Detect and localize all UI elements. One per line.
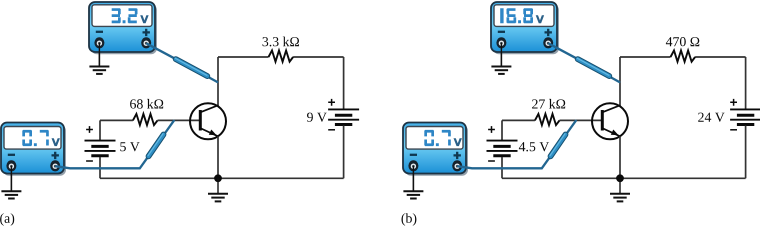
label 27 kΩ xyxy=(532,99,565,109)
resistor 3.3 kΩ xyxy=(269,51,294,62)
ground under top meter (b) xyxy=(491,53,511,74)
probe lead from bottom meter to base (a) xyxy=(56,121,174,169)
probe lead from top meter to collector (b) xyxy=(549,44,619,82)
probe lead from top meter to collector (a) xyxy=(147,44,217,82)
resistor 27 kΩ xyxy=(535,114,560,125)
battery minus sign (a base) xyxy=(86,160,93,162)
label 9 V xyxy=(307,113,327,122)
label (b) xyxy=(402,213,417,226)
voltmeter 3.2 V (top, a) xyxy=(89,2,157,54)
junction node emitter/bottom rail (a) xyxy=(214,174,222,182)
ground under top meter (a) xyxy=(89,53,109,74)
label 3.3 kΩ xyxy=(263,37,300,47)
ground under bottom meter (b) xyxy=(403,174,423,199)
wire: base battery bottom lead (a) xyxy=(99,157,101,178)
battery 5 V xyxy=(85,141,116,156)
voltmeter 0.7 V (bottom, b) xyxy=(403,123,468,176)
wire: right rail upper (a) xyxy=(343,57,345,109)
resistor 68 kΩ xyxy=(133,114,158,125)
label 4.5 V xyxy=(519,142,549,151)
wire: base battery top lead (a) xyxy=(99,120,101,140)
resistor 470 Ω xyxy=(671,51,696,62)
wire: base battery top lead (b) xyxy=(501,120,503,140)
label 470 Ω xyxy=(666,37,699,46)
wire: emitter to bottom rail (b) xyxy=(619,136,621,178)
probe lead from bottom meter to base (b) xyxy=(458,121,576,169)
battery plus sign (b base) xyxy=(488,126,495,133)
label 24 V xyxy=(698,113,724,122)
battery 24 V xyxy=(730,109,760,124)
wire: right rail lower (b) xyxy=(745,126,747,179)
wire: emitter to bottom rail (a) xyxy=(217,136,219,178)
battery plus sign (b right) xyxy=(730,99,737,106)
wire: right rail upper (b) xyxy=(745,57,747,109)
battery 4.5 V xyxy=(487,141,518,156)
wire: top meter minus lead (b) xyxy=(500,43,502,67)
battery minus sign (a right) xyxy=(328,129,335,131)
voltmeter 0.7 V (bottom, a) xyxy=(1,123,66,176)
wire: top rail with collector resistor (b) xyxy=(620,56,746,58)
wire: base wire with resistor (b) xyxy=(502,119,602,121)
wire: top rail with collector resistor (a) xyxy=(218,56,344,58)
wire: base battery bottom lead (b) xyxy=(501,157,503,178)
wire: bottom rail (b) xyxy=(502,177,746,179)
label 68 kΩ xyxy=(130,99,163,109)
wire: bottom meter minus lead (a) xyxy=(10,166,12,192)
label (a) xyxy=(0,213,14,226)
junction node emitter/bottom rail (b) xyxy=(616,174,624,182)
voltmeter 16.8 V (top, b) xyxy=(491,2,559,54)
wire: collector rail top (a) xyxy=(217,57,219,106)
transistor b (NPN BJT) xyxy=(592,103,628,139)
ground at emitter node (b) xyxy=(610,178,630,201)
ground under bottom meter (a) xyxy=(1,174,21,199)
battery plus sign (a right) xyxy=(328,99,335,106)
ground at emitter node (a) xyxy=(208,178,228,201)
transistor a (NPN BJT) xyxy=(190,103,226,139)
wire: base wire with resistor (a) xyxy=(100,119,200,121)
battery minus sign (b right) xyxy=(730,129,737,131)
wire: top meter minus lead (a) xyxy=(98,43,100,67)
wire: collector rail top (b) xyxy=(619,57,621,106)
wire: bottom rail (a) xyxy=(100,177,344,179)
battery minus sign (b base) xyxy=(488,160,495,162)
battery 9 V xyxy=(328,109,359,124)
battery plus sign (a base) xyxy=(86,126,93,133)
wire: bottom meter minus lead (b) xyxy=(412,166,414,192)
label 5 V xyxy=(120,142,139,151)
wire: right rail lower (a) xyxy=(343,126,345,179)
